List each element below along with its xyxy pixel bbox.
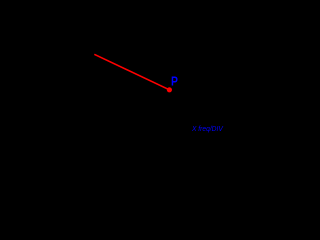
svg-text:X freq/DIV: X freq/DIV	[191, 124, 224, 133]
node P	[167, 87, 172, 92]
wire	[94, 54, 169, 90]
svg-text:P: P	[171, 74, 178, 89]
